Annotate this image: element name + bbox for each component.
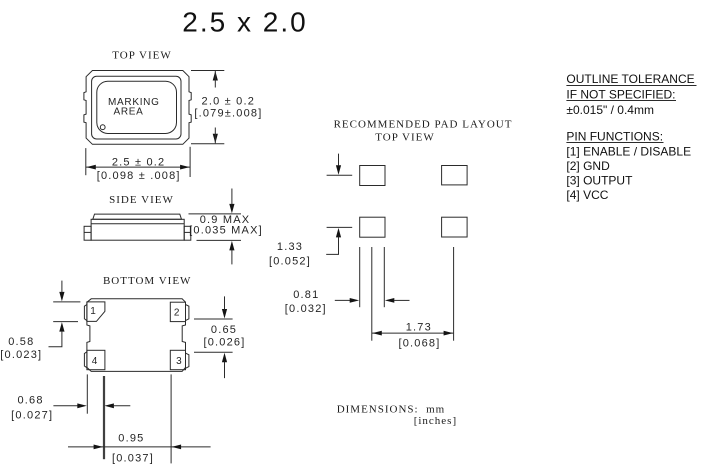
dim 0.9 bottom extension line bbox=[197, 239, 242, 241]
dim 0.95 left arrowhead bbox=[94, 445, 104, 450]
svg-text:AREA: AREA bbox=[113, 107, 143, 118]
layout extension pad left edge bbox=[359, 247, 361, 307]
svg-text:TOP VIEW: TOP VIEW bbox=[375, 131, 434, 143]
dim 0.58 lower extension line bbox=[53, 321, 78, 323]
svg-text:BOTTOM VIEW: BOTTOM VIEW bbox=[103, 275, 192, 287]
dim 2.5 dimension line bbox=[86, 166, 190, 168]
dim 1.73 dimension line bbox=[372, 332, 453, 334]
dim 0.58 upper arrow bbox=[59, 292, 64, 302]
pad 2 tab bbox=[186, 305, 189, 321]
pad 4 tab bbox=[84, 352, 87, 368]
dim 0.65 upper extension line bbox=[194, 318, 233, 320]
svg-text:3: 3 bbox=[176, 356, 182, 367]
svg-text:0.65: 0.65 bbox=[211, 324, 237, 336]
dim 0.58 upper extension line bbox=[53, 301, 80, 303]
dim 2.5 left arrowhead bbox=[86, 165, 96, 170]
dim 0.9 top extension line bbox=[189, 213, 242, 215]
svg-text:OUTLINE TOLERANCE: OUTLINE TOLERANCE bbox=[566, 72, 694, 86]
svg-text:[0.023]: [0.023] bbox=[0, 349, 42, 361]
svg-text:0.58: 0.58 bbox=[8, 336, 34, 348]
svg-text:DIMENSIONS: mm: DIMENSIONS: mm bbox=[337, 404, 446, 416]
svg-text:[0.027]: [0.027] bbox=[11, 409, 53, 421]
side view left tab midline bbox=[84, 231, 91, 233]
svg-text:[0.026]: [0.026] bbox=[203, 337, 245, 349]
svg-text:PIN FUNCTIONS:: PIN FUNCTIONS: bbox=[566, 130, 663, 144]
svg-text:0.95: 0.95 bbox=[118, 432, 144, 444]
pad 4 bbox=[87, 350, 105, 369]
side view body bbox=[91, 219, 184, 240]
svg-text:0.68: 0.68 bbox=[17, 395, 43, 407]
dim 1.33 lower arrow bbox=[336, 228, 341, 238]
svg-text:2.0 ± 0.2: 2.0 ± 0.2 bbox=[202, 96, 256, 108]
svg-text:[3] OUTPUT: [3] OUTPUT bbox=[566, 173, 633, 187]
side view right tab midline bbox=[184, 231, 191, 233]
pad 3 tab bbox=[186, 353, 189, 368]
dim 2.0 bottom extension line bbox=[191, 143, 224, 145]
side view lid bbox=[93, 214, 182, 219]
side view right tab bbox=[184, 226, 191, 240]
dim 0.95 right arrowhead bbox=[172, 445, 182, 450]
svg-text:4: 4 bbox=[92, 356, 98, 367]
dim 1.33 upper extension line bbox=[327, 174, 353, 176]
svg-text:1.33: 1.33 bbox=[277, 241, 303, 253]
svg-text:IF NOT SPECIFIED:: IF NOT SPECIFIED: bbox=[566, 88, 675, 102]
layout extension pad right edge bbox=[383, 247, 385, 307]
dim 0.81 left segment and arrow bbox=[335, 299, 351, 301]
top view inner marking-area outline bbox=[97, 81, 177, 133]
svg-text:[2] GND: [2] GND bbox=[566, 159, 610, 173]
layout pad top-left bbox=[360, 166, 385, 186]
svg-text:TOP VIEW: TOP VIEW bbox=[112, 50, 171, 62]
dim 0.68 left segment and arrow bbox=[53, 405, 79, 407]
svg-text:RECOMMENDED PAD LAYOUT: RECOMMENDED PAD LAYOUT bbox=[334, 118, 513, 130]
layout extension pad centerline left bbox=[371, 247, 373, 341]
dim 0.68 right segment and arrow bbox=[104, 403, 114, 408]
pad 3 bbox=[170, 350, 185, 369]
svg-text:[0.032]: [0.032] bbox=[285, 303, 327, 315]
dim 2.5 left extension line bbox=[85, 148, 87, 175]
dim 1.73 left arrowhead bbox=[372, 331, 382, 336]
dim 0.95 dimension line bbox=[68, 446, 211, 448]
layout pad bottom-right bbox=[442, 217, 468, 237]
svg-text:1.73: 1.73 bbox=[406, 322, 432, 334]
svg-text:[0.052]: [0.052] bbox=[269, 255, 311, 267]
svg-text:[0.035 MAX]: [0.035 MAX] bbox=[189, 224, 263, 236]
dim 0.81 right segment and arrow bbox=[385, 298, 395, 303]
pad 2 bbox=[170, 302, 185, 321]
pad 1 bbox=[87, 302, 105, 322]
dim 2.0 lower arrow bbox=[213, 134, 218, 144]
svg-text:[0.037]: [0.037] bbox=[112, 452, 154, 464]
svg-text:SIDE VIEW: SIDE VIEW bbox=[109, 194, 174, 206]
top view middle rounded outline bbox=[92, 76, 181, 139]
dim 2.5 right extension line bbox=[189, 147, 191, 177]
side view left tab bbox=[84, 226, 91, 240]
dim 2.5 right arrowhead bbox=[180, 165, 190, 170]
svg-text:[0.068]: [0.068] bbox=[398, 337, 440, 349]
bottom view package outline bbox=[87, 299, 186, 372]
svg-text:[inches]: [inches] bbox=[414, 415, 457, 427]
svg-text:[1] ENABLE / DISABLE: [1] ENABLE / DISABLE bbox=[566, 144, 691, 158]
dim 0.65 upper arrow bbox=[222, 309, 227, 319]
dim 1.33 upper arrow bbox=[336, 165, 341, 175]
dim 2.0 top extension line bbox=[191, 70, 224, 72]
dim 0.68 extension line B thick bbox=[102, 376, 104, 459]
dim 0.58 lower arrow bbox=[59, 322, 64, 332]
side view seam line bbox=[91, 223, 184, 225]
svg-text:2.5 x 2.0: 2.5 x 2.0 bbox=[182, 6, 307, 37]
dim 0.9 upper arrow bbox=[229, 204, 234, 214]
svg-text:2.5 ± 0.2: 2.5 ± 0.2 bbox=[112, 156, 166, 168]
pad 1 tab bbox=[84, 305, 87, 321]
layout extension pad centerline right bbox=[453, 247, 455, 341]
dim 2.0 upper arrow bbox=[213, 71, 218, 81]
dim 0.95 extension line C bbox=[170, 374, 172, 463]
layout pad top-right bbox=[442, 166, 468, 185]
dim 0.9 lower arrow bbox=[229, 241, 234, 251]
svg-text:[4] VCC: [4] VCC bbox=[566, 188, 608, 202]
svg-text:0.81: 0.81 bbox=[293, 289, 319, 301]
top view outer package outline bbox=[84, 71, 191, 145]
svg-text:[.079±.008]: [.079±.008] bbox=[194, 107, 262, 119]
pin 1 marker circle bbox=[100, 125, 105, 130]
svg-text:±0.015" / 0.4mm: ±0.015" / 0.4mm bbox=[566, 103, 654, 117]
svg-text:1: 1 bbox=[90, 306, 96, 317]
dim 1.73 right arrowhead bbox=[444, 331, 454, 336]
layout pad bottom-left bbox=[360, 217, 385, 237]
dim 0.65 lower extension line bbox=[194, 351, 233, 353]
dim 0.68 extension line A bbox=[86, 374, 88, 413]
svg-text:[0.098 ± .008]: [0.098 ± .008] bbox=[97, 170, 181, 182]
svg-text:2: 2 bbox=[174, 307, 180, 318]
dim 0.65 lower arrow bbox=[222, 353, 227, 363]
dim 1.33 lower extension line bbox=[327, 226, 353, 228]
